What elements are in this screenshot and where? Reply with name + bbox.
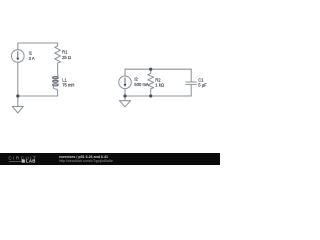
CircuitLab logo — [8, 156, 37, 164]
current source I2 circle — [119, 76, 132, 89]
arrow of I1 — [16, 51, 19, 60]
wire: right circuit I2 top lead — [124, 69, 126, 76]
wire: left circuit left branch top lead — [17, 43, 19, 50]
junction node R2 bottom — [149, 94, 152, 97]
svg-text:1 kΩ: 1 kΩ — [155, 83, 164, 88]
ground right circuit — [124, 96, 126, 101]
svg-text:25 Ω: 25 Ω — [62, 55, 71, 60]
svg-text:LAB: LAB — [26, 159, 36, 164]
wire: left circuit left branch bottom lead — [17, 62, 19, 96]
svg-text:R2: R2 — [155, 77, 161, 82]
capacitor C1 bottom lead — [190, 85, 192, 97]
resistor R2 zigzag — [148, 69, 154, 96]
junction node R2 top — [149, 68, 152, 71]
svg-text:http://circuitlab.com/c/7qpqkd: http://circuitlab.com/c/7qpqkd5a8e — [59, 159, 113, 163]
svg-text:R1: R1 — [62, 50, 68, 55]
current source I1 circle — [11, 50, 24, 63]
capacitor C1 top lead — [190, 69, 192, 82]
svg-text:5 µF: 5 µF — [198, 82, 207, 87]
wire: right circuit top — [125, 68, 191, 70]
footer bar — [0, 153, 220, 165]
wire: left circuit top — [18, 42, 58, 44]
junction node I2 bottom — [123, 94, 126, 97]
wire: right circuit I2 bottom lead — [124, 89, 126, 96]
svg-text:500 mA: 500 mA — [134, 82, 149, 87]
inductor L1 coil — [56, 74, 58, 76]
svg-text:75 mH: 75 mH — [62, 82, 74, 87]
svg-text:3 A: 3 A — [29, 56, 35, 61]
capacitor C1 plates — [186, 81, 197, 83]
wire: right circuit bottom — [125, 95, 191, 97]
arrow of I2 — [124, 78, 127, 87]
wire: left circuit bottom — [18, 95, 58, 97]
resistor R1 zigzag — [55, 43, 61, 74]
junction node left circuit bottom — [16, 94, 19, 97]
ground left circuit — [17, 96, 19, 107]
